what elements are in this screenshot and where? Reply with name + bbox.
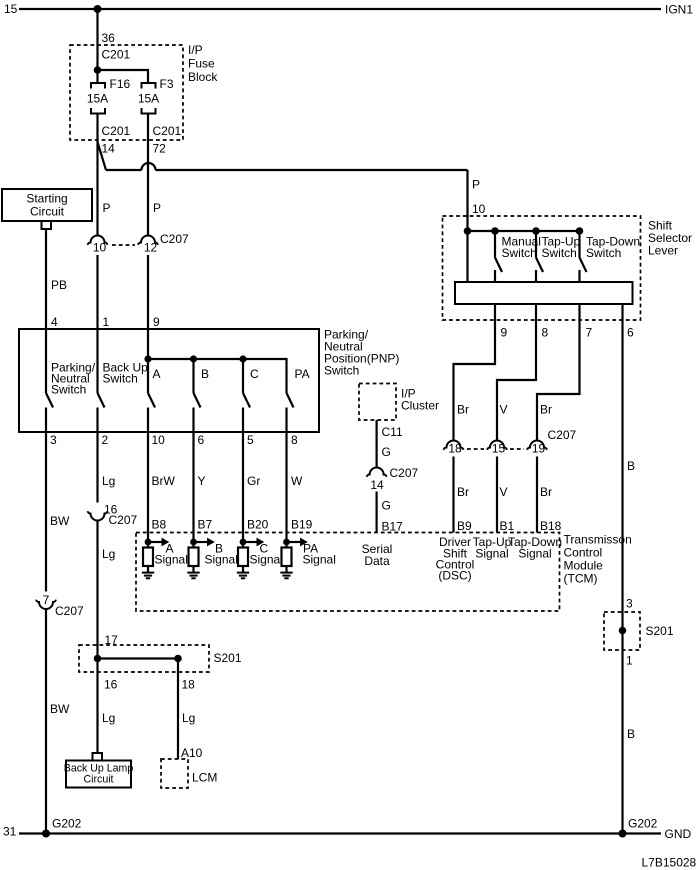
svg-text:2: 2	[102, 433, 109, 447]
switch Parking/Neutral	[45, 329, 47, 393]
splice S201 (left, dashed)	[79, 645, 209, 672]
svg-text:6: 6	[627, 326, 634, 340]
switch Back Up	[96, 329, 98, 393]
Back Up Lamp Circuit terminal tab	[93, 753, 103, 761]
svg-text:10: 10	[93, 241, 107, 255]
svg-text:Signal: Signal	[518, 547, 551, 561]
connector C207 link (dashed)	[112, 244, 135, 246]
svg-text:9: 9	[153, 315, 160, 329]
wire F16 output down to connector C207-10	[96, 114, 98, 236]
svg-text:C207: C207	[109, 513, 138, 527]
wire BrW from pin 10	[147, 432, 149, 548]
svg-text:BW: BW	[50, 702, 70, 716]
svg-text:Br: Br	[540, 403, 552, 417]
junction B	[190, 355, 197, 362]
wire Gr from pin 5	[242, 432, 244, 548]
svg-text:Cluster: Cluster	[401, 399, 439, 413]
ground wire G202 (bottom horizontal)	[19, 832, 661, 834]
svg-text:Lg: Lg	[102, 547, 115, 561]
svg-text:8: 8	[542, 326, 549, 340]
wire V to TCM B1	[496, 457, 498, 533]
svg-text:G: G	[382, 499, 391, 513]
switch B	[192, 359, 194, 393]
wire G from cluster	[376, 420, 378, 468]
svg-text:V: V	[500, 485, 508, 499]
switch C	[242, 359, 244, 393]
ground C	[242, 566, 244, 572]
PNP bus	[148, 359, 287, 393]
svg-text:9: 9	[501, 326, 508, 340]
svg-text:PA: PA	[295, 367, 310, 381]
svg-text:I/P: I/P	[188, 43, 203, 57]
resistor PA signal	[282, 548, 292, 567]
svg-text:B9: B9	[457, 519, 472, 533]
svg-text:B: B	[201, 367, 209, 381]
fuse F3	[142, 83, 156, 89]
svg-text:Switch: Switch	[51, 383, 86, 397]
svg-text:7: 7	[43, 593, 50, 607]
switch PA	[287, 393, 294, 408]
svg-text:G: G	[382, 445, 391, 459]
svg-text:15: 15	[492, 442, 506, 456]
svg-text:C201: C201	[153, 124, 182, 138]
junction G202 right	[619, 830, 627, 838]
svg-text:C207: C207	[548, 428, 577, 442]
svg-text:W: W	[291, 474, 303, 488]
svg-text:P: P	[472, 178, 480, 192]
svg-text:19: 19	[532, 442, 546, 456]
connector C207 pin 18	[444, 441, 464, 450]
wire W from pin 8	[285, 432, 287, 548]
svg-text:L7B15028: L7B15028	[642, 856, 697, 870]
svg-text:C207: C207	[55, 604, 84, 618]
connector C207 pin 10	[88, 236, 108, 245]
svg-text:8: 8	[291, 433, 298, 447]
wire branch to shift selector (diagonal)	[98, 142, 107, 170]
svg-text:C207: C207	[160, 232, 189, 246]
svg-text:Signal: Signal	[155, 553, 188, 567]
node C signal	[240, 539, 247, 546]
LCM box (dashed)	[161, 759, 188, 788]
svg-text:Data: Data	[364, 554, 390, 568]
junction shift bus 1	[464, 227, 472, 235]
switch Manual	[494, 231, 496, 258]
wire IGN1 feed (top horizontal)	[19, 8, 661, 10]
switch Tap-Down	[578, 231, 580, 258]
svg-text:Switch: Switch	[542, 246, 577, 260]
svg-text:B17: B17	[382, 520, 404, 534]
svg-text:Fuse: Fuse	[188, 57, 215, 71]
svg-text:S201: S201	[646, 624, 674, 638]
svg-text:Control: Control	[564, 546, 603, 560]
svg-text:Lever: Lever	[648, 244, 678, 258]
svg-text:Signal: Signal	[475, 547, 508, 561]
wire Lg to LCM	[177, 659, 179, 760]
connector C207 links (dashed)	[467, 448, 484, 450]
svg-text:Switch: Switch	[103, 372, 138, 386]
resistor A signal	[143, 548, 153, 567]
junction S201 pin 16	[94, 655, 102, 663]
wire Y from pin 6	[192, 432, 194, 548]
PNP switch box	[19, 329, 319, 432]
svg-text:14: 14	[102, 142, 116, 156]
node PA signal	[283, 539, 290, 546]
svg-text:B20: B20	[247, 518, 269, 532]
svg-text:5: 5	[247, 433, 254, 447]
svg-text:B: B	[627, 727, 635, 741]
svg-text:V: V	[500, 403, 508, 417]
svg-text:G202: G202	[628, 817, 658, 831]
svg-text:Transmisson: Transmisson	[564, 533, 632, 547]
svg-text:Circuit: Circuit	[30, 205, 65, 219]
junction S201 pin 18	[174, 655, 182, 663]
svg-text:15A: 15A	[87, 92, 108, 106]
Starting Circuit terminal tab	[42, 221, 52, 229]
svg-text:1: 1	[626, 654, 633, 668]
Back Up Lamp Circuit box	[66, 761, 131, 788]
svg-text:3: 3	[50, 433, 57, 447]
switch A	[147, 359, 149, 393]
svg-text:6: 6	[198, 433, 205, 447]
svg-text:4: 4	[51, 315, 58, 329]
svg-text:B18: B18	[540, 519, 562, 533]
svg-text:Starting: Starting	[26, 192, 67, 206]
svg-text:BW: BW	[50, 514, 70, 528]
wire bus to lever bar	[466, 231, 468, 282]
svg-text:Signal: Signal	[250, 553, 283, 567]
switch Tap-Up	[535, 231, 537, 258]
svg-text:B: B	[627, 459, 635, 473]
svg-text:Switch: Switch	[502, 246, 537, 260]
wire horizontal to shift selector with hop over F3 wire	[106, 169, 142, 171]
svg-text:36: 36	[102, 31, 116, 45]
svg-text:B7: B7	[198, 518, 213, 532]
svg-text:GND: GND	[665, 827, 692, 841]
wire drop to fuse F16	[96, 9, 98, 83]
ground A	[147, 566, 149, 572]
svg-text:B1: B1	[500, 519, 515, 533]
svg-text:3: 3	[626, 597, 633, 611]
wire to fuse F3	[98, 70, 149, 83]
svg-text:Block: Block	[188, 70, 218, 84]
svg-text:Switch: Switch	[324, 364, 359, 378]
wire 10 to PNP pin 1	[96, 255, 98, 329]
junction in fuse block	[94, 66, 102, 74]
wire F3 output down to connector C207-12	[147, 114, 149, 236]
junction G202 left	[42, 830, 50, 838]
svg-text:C11: C11	[382, 425, 403, 439]
node B signal	[190, 539, 197, 546]
svg-text:BrW: BrW	[152, 474, 176, 488]
junction shift bus 4	[576, 227, 584, 235]
wire pin 6 (B) down to ground	[621, 304, 623, 834]
svg-text:16: 16	[104, 678, 118, 692]
svg-text:Signal: Signal	[205, 553, 238, 567]
junction shift bus 2	[491, 227, 499, 235]
wire BW from pin 3	[45, 432, 47, 592]
svg-text:Br: Br	[540, 485, 552, 499]
svg-text:14: 14	[370, 478, 384, 492]
lever bar	[455, 282, 633, 304]
junction A	[144, 355, 151, 362]
svg-text:C207: C207	[390, 466, 419, 480]
resistor B signal	[189, 548, 199, 567]
fuse F16	[91, 83, 105, 89]
wire G to TCM B17	[376, 492, 378, 533]
svg-text:Switch: Switch	[586, 246, 621, 260]
svg-text:B8: B8	[152, 518, 167, 532]
svg-text:Br: Br	[457, 485, 469, 499]
svg-text:P: P	[103, 201, 111, 215]
svg-text:Module: Module	[564, 559, 604, 573]
svg-text:12: 12	[144, 241, 158, 255]
connector C207 pin 12	[138, 236, 158, 245]
wire PB from starting circuit	[45, 229, 47, 329]
svg-text:1: 1	[103, 315, 110, 329]
resistor C signal	[238, 548, 248, 567]
ground B	[192, 566, 194, 572]
svg-text:Lg: Lg	[102, 474, 115, 488]
svg-text:F3: F3	[160, 77, 174, 91]
svg-text:(DSC): (DSC)	[438, 569, 471, 583]
svg-text:IGN1: IGN1	[665, 3, 693, 17]
svg-text:LCM: LCM	[192, 771, 217, 785]
svg-text:Lg: Lg	[102, 711, 115, 725]
svg-text:F16: F16	[110, 77, 131, 91]
svg-text:PB: PB	[51, 278, 67, 292]
wire pin 9 with jog	[454, 304, 496, 441]
svg-text:C: C	[250, 367, 259, 381]
svg-text:A: A	[153, 367, 161, 381]
svg-text:Br: Br	[457, 403, 469, 417]
Shift Selector Lever box (dashed)	[443, 216, 641, 320]
wire P to shift selector	[466, 170, 468, 231]
wire BW below 7	[45, 609, 47, 834]
svg-text:P: P	[153, 201, 161, 215]
connector C207 pin 15	[487, 441, 507, 450]
connector C207 pin 19	[527, 441, 547, 450]
svg-text:Gr: Gr	[247, 474, 260, 488]
wire pin 7 with jog	[537, 304, 580, 441]
svg-text:(TCM): (TCM)	[564, 572, 598, 586]
wire Br to TCM B9	[452, 457, 454, 533]
svg-text:S201: S201	[214, 651, 242, 665]
svg-text:10: 10	[152, 433, 166, 447]
I/P Cluster box (dashed)	[359, 384, 396, 421]
svg-text:15: 15	[4, 2, 18, 16]
svg-text:31: 31	[3, 825, 17, 839]
svg-text:Lg: Lg	[182, 711, 195, 725]
junction C	[239, 355, 246, 362]
svg-text:18: 18	[448, 442, 462, 456]
I/P Fuse Block (dashed)	[70, 45, 183, 140]
shift selector bus	[468, 230, 580, 232]
svg-text:15A: 15A	[138, 92, 159, 106]
svg-text:18: 18	[182, 678, 196, 692]
wire Lg from pin 2	[96, 432, 98, 503]
TCM box (dashed)	[136, 533, 560, 612]
wire pin9 to PNP bus	[147, 329, 149, 359]
svg-text:C201: C201	[102, 124, 131, 138]
wire 12 to PNP pin 9	[147, 255, 149, 329]
svg-text:72: 72	[153, 142, 167, 156]
svg-text:Y: Y	[198, 474, 206, 488]
svg-text:Signal: Signal	[303, 553, 336, 567]
wire pin 8 with jog	[497, 304, 536, 441]
junction shift bus 3	[532, 227, 540, 235]
svg-text:10: 10	[472, 202, 486, 216]
svg-text:A10: A10	[181, 746, 203, 760]
svg-text:Circuit: Circuit	[83, 774, 113, 786]
wire Br to TCM B18	[536, 457, 538, 533]
svg-text:C201: C201	[102, 48, 131, 62]
node A signal	[145, 539, 152, 546]
svg-text:B19: B19	[291, 518, 313, 532]
ground PA	[285, 566, 287, 572]
wire Lg below 16	[96, 521, 98, 754]
svg-text:G202: G202	[52, 817, 82, 831]
splice bus	[98, 657, 179, 659]
Starting Circuit box	[2, 189, 92, 221]
svg-text:7: 7	[586, 326, 593, 340]
junction top	[94, 5, 102, 13]
